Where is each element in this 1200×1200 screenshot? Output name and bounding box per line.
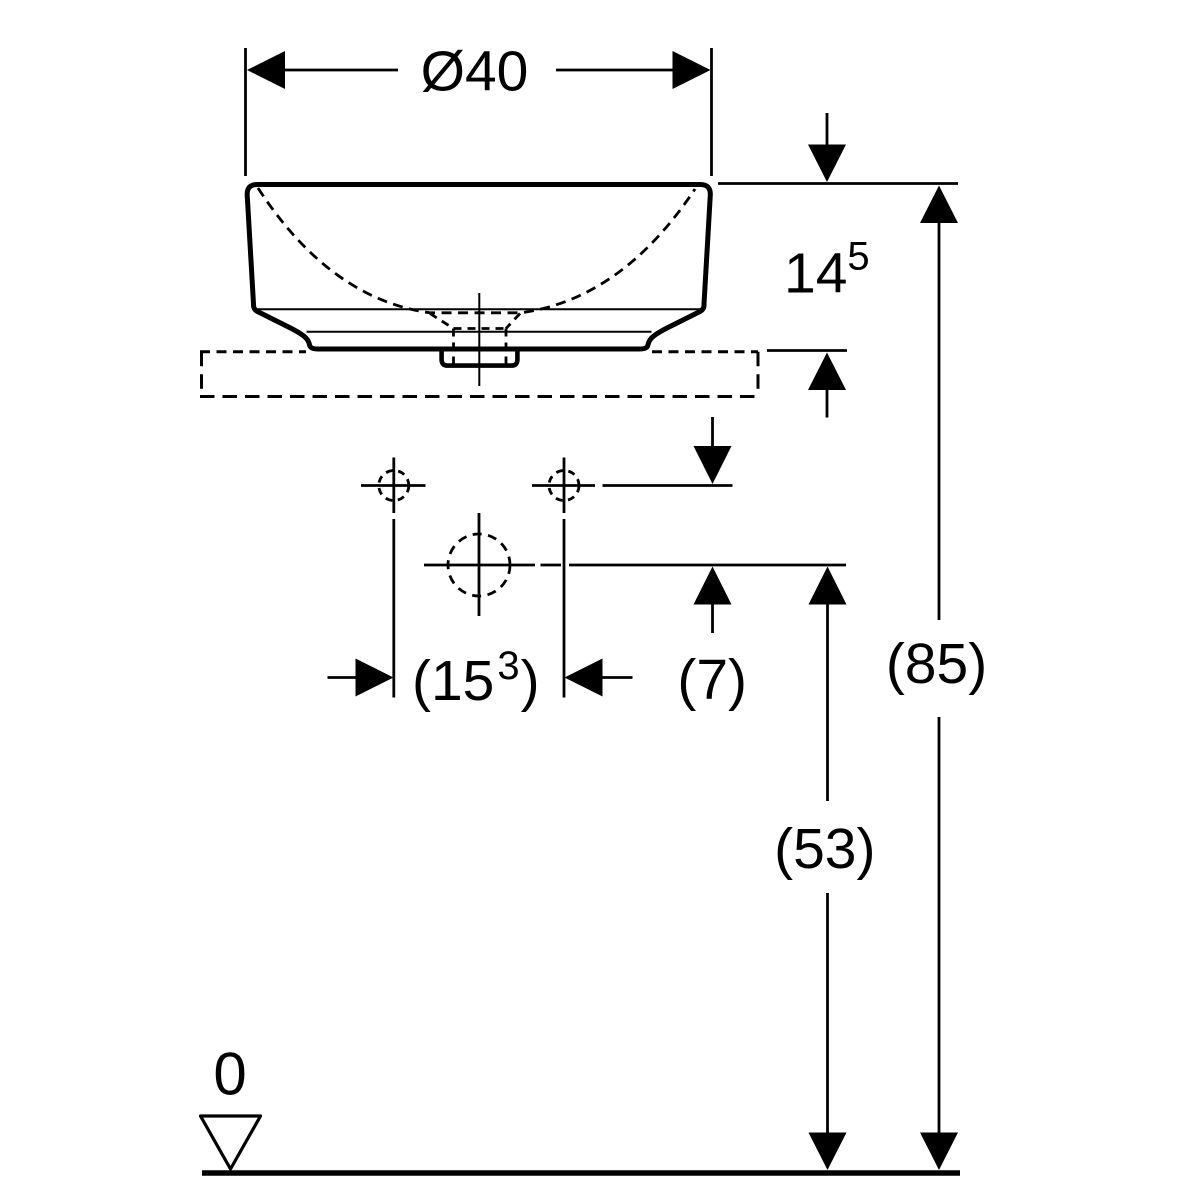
countertop dashed top edge right <box>652 350 758 353</box>
dimension 14.5 lower arrow tail <box>826 388 829 418</box>
washbasin outer outline <box>247 185 710 350</box>
dimension 85 line lower segment <box>938 717 941 1133</box>
dimension 85 bottom arrowhead <box>920 1133 958 1171</box>
dimension D40 dimension line left segment <box>284 69 398 72</box>
drain hole dashed circle <box>448 534 510 596</box>
drain hole crosshair vertical <box>478 513 481 616</box>
dimension D40 dimension line right segment <box>556 69 674 72</box>
dimension 15.3 left arrowhead <box>356 659 394 697</box>
dashed drain funnel right slope <box>506 314 520 329</box>
dimension 7 lower arrow tail <box>711 602 714 633</box>
dimension 15.3 right leader line <box>602 676 633 679</box>
basin inner rim line <box>257 308 702 310</box>
tap hole left crosshair vertical <box>392 458 395 514</box>
dimension D40 extension line right <box>710 48 713 176</box>
dashed drain funnel bottom <box>454 327 507 330</box>
basin top level line <box>718 182 958 185</box>
svg-text:Ø40: Ø40 <box>421 40 529 104</box>
tap hole left dashed circle <box>379 471 409 501</box>
extension line from right tap hole <box>563 519 566 698</box>
dimension 7 upper arrowhead <box>694 446 732 484</box>
svg-text:0: 0 <box>213 1041 246 1108</box>
tap hole right crosshair horizontal <box>532 484 595 487</box>
tap hole right dashed circle <box>549 471 579 501</box>
svg-text:(85): (85) <box>886 632 987 696</box>
extension line from left tap hole <box>392 519 395 698</box>
dashed drain pipe right wall <box>505 329 508 367</box>
dimension 53 bottom arrowhead <box>809 1133 847 1171</box>
dimension 14.5 upper arrow tail <box>826 113 829 147</box>
countertop dashed left edge <box>200 352 203 397</box>
floor baseline <box>202 1170 960 1176</box>
dimension D40 left arrowhead <box>247 51 285 89</box>
datum triangle <box>201 1116 261 1169</box>
countertop level line <box>767 349 847 352</box>
tap hole left crosshair horizontal <box>361 484 426 487</box>
drain stub <box>442 351 518 366</box>
drain centerline <box>478 293 480 386</box>
dimension 85 line upper segment <box>938 221 941 620</box>
dimension D40 right arrowhead <box>673 51 711 89</box>
basin foot line <box>307 331 652 333</box>
dimension 14.5 lower arrowhead <box>808 353 846 391</box>
dimension 7 upper arrow tail <box>711 417 714 449</box>
svg-text:(7): (7) <box>677 648 747 712</box>
dimension 53 line lower segment <box>826 893 829 1133</box>
drain level line right segment <box>569 564 846 567</box>
dimension 53 line upper segment <box>826 602 829 801</box>
drain level line left segment <box>424 564 535 567</box>
dimension 15.3 right arrowhead <box>565 659 603 697</box>
dimension 53 top arrowhead <box>809 567 847 605</box>
svg-text:(153): (153) <box>412 644 540 713</box>
dimension 7 lower arrowhead <box>694 567 732 605</box>
countertop dashed right edge <box>757 352 760 397</box>
dashed drain pipe left wall <box>452 329 455 367</box>
dimension D40 extension line left <box>244 48 247 176</box>
countertop dashed top edge left <box>200 350 306 353</box>
svg-text:(53): (53) <box>774 817 875 881</box>
tap hole right crosshair vertical <box>563 458 566 514</box>
dimension 15.3 left leader line <box>328 676 357 679</box>
dashed bowl curve <box>258 188 695 313</box>
dimension 85 top arrowhead <box>920 186 958 224</box>
dashed drain funnel left slope <box>430 314 454 329</box>
dimension 7 line at tap hole level <box>603 484 733 487</box>
countertop dashed bottom edge <box>200 395 758 398</box>
dimension 14.5 upper arrowhead <box>808 145 846 183</box>
